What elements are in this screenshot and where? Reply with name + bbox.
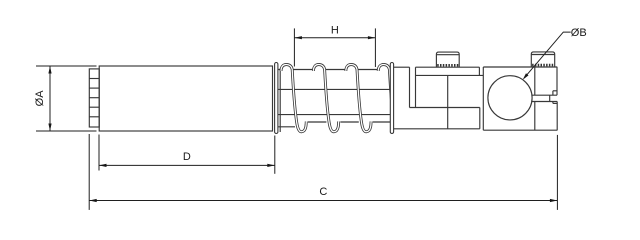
dimension OA arrow up	[48, 66, 51, 74]
dimension H extension left	[293, 28, 295, 66]
clamp bore circle	[488, 76, 532, 120]
spring coil wire 3	[346, 65, 371, 132]
yoke left edge	[415, 67, 417, 107]
svg-text:D: D	[183, 151, 191, 163]
clamp jaw inner edge upper	[534, 67, 536, 95]
dimension H dim line	[294, 37, 375, 39]
clamp block right edge lower	[556, 102, 558, 131]
dimension D arrow left	[99, 164, 107, 167]
svg-text:H: H	[331, 24, 339, 36]
right thumb screw cap line	[531, 54, 554, 56]
dimension D arrow right	[267, 164, 275, 167]
clamp block left edge	[482, 67, 484, 130]
leader line OB	[524, 32, 571, 78]
left spring washer	[275, 63, 278, 134]
clamp slit bottom	[531, 101, 557, 103]
spring coil wire 1	[281, 65, 306, 132]
left thumb screw cap line	[436, 54, 459, 56]
clamp lip line upper	[553, 90, 557, 92]
dimension D dim line	[99, 164, 275, 166]
dimension C extension left	[88, 134, 90, 210]
cap segment line 5	[89, 116, 99, 118]
dimension C extension right	[556, 135, 558, 210]
right thumb screw head	[531, 52, 554, 67]
cap segment line 2	[89, 87, 99, 89]
dimension H arrow left	[294, 36, 302, 39]
yoke bottom edge	[394, 128, 480, 130]
clamp slit top	[532, 94, 557, 96]
yoke top bar bottom edge	[416, 74, 484, 76]
cap segment line 1	[89, 78, 99, 80]
clamp lip line lower	[553, 102, 557, 104]
clamp block top edge	[483, 66, 557, 68]
cap segment line 3	[89, 97, 99, 99]
spring top connector 3	[357, 69, 379, 71]
clamp block right edge upper	[556, 67, 558, 95]
spring top connector 1	[292, 69, 314, 71]
spring coil wire 2	[313, 65, 338, 132]
yoke bottom bar right edge	[479, 108, 481, 129]
clamp jaw inner edge lower	[534, 102, 536, 131]
rod top edge	[278, 88, 394, 90]
dimension C dim line	[89, 200, 557, 202]
dimension D extension left	[98, 135, 100, 171]
yoke top bar right step	[478, 67, 480, 75]
dimension H extension right	[374, 28, 376, 67]
svg-text:C: C	[319, 186, 327, 198]
spring top connector 2	[325, 69, 347, 71]
end cap knurled	[89, 69, 99, 127]
left thumb screw head	[436, 52, 459, 67]
spring bottom connector 1	[308, 121, 326, 123]
yoke top bar top edge	[416, 66, 480, 68]
dimension C arrow left	[89, 199, 97, 202]
yoke web vertical	[447, 75, 449, 128]
rod bottom edge	[278, 114, 394, 116]
dimension OA dim line	[49, 66, 51, 131]
dimension D extension right	[274, 136, 276, 174]
rod end plate top edge	[394, 66, 410, 68]
clamp slit end wall	[549, 95, 551, 101]
yoke slot line	[410, 107, 480, 109]
spring wire end	[279, 69, 281, 133]
dimension H arrow right	[368, 36, 376, 39]
spring bottom connector 3	[373, 121, 391, 123]
dimension OA extension line bottom	[36, 130, 97, 132]
svg-text:ØB: ØB	[571, 27, 587, 39]
svg-text:ØA: ØA	[34, 90, 46, 107]
rod end plate right edge	[409, 67, 411, 107]
spring bottom connector 2	[340, 121, 358, 123]
clamp block bottom edge	[483, 129, 557, 131]
clamp lip wall upper	[552, 91, 554, 95]
spring coil wire 4	[378, 65, 398, 135]
spring top connector 0	[278, 69, 282, 71]
leader arrowhead OB	[523, 73, 529, 79]
dimension OA extension line top	[36, 65, 97, 67]
cap segment line 4	[89, 106, 99, 108]
left thumb screw knurl	[437, 64, 458, 67]
dimension OA arrow down	[48, 124, 51, 132]
spring bottom connector 0	[278, 126, 295, 128]
dimension C arrow right	[550, 199, 558, 202]
clamp lip wall lower	[552, 102, 554, 104]
cylinder body	[99, 66, 272, 131]
right thumb screw knurl	[532, 64, 554, 67]
right spring washer	[390, 63, 393, 134]
